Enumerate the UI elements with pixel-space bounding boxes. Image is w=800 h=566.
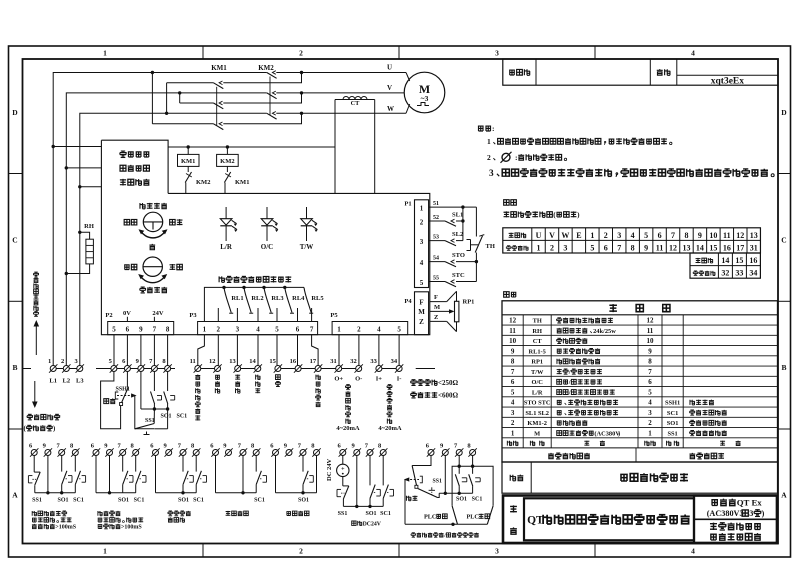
- svg-text:15: 15: [735, 256, 743, 265]
- torque switch STO wire 54: [429, 261, 445, 263]
- svg-text:11: 11: [647, 327, 654, 335]
- terminal 6 option group: [340, 450, 346, 456]
- g6 description external DC24V: [352, 521, 356, 525]
- svg-text:16: 16: [290, 358, 297, 365]
- wire phase row1 L1 to KM2 pole: [53, 73, 267, 366]
- terminal 9 option group: [354, 450, 360, 456]
- svg-text:RL1-5: RL1-5: [528, 348, 545, 355]
- svg-text:5: 5: [590, 243, 594, 252]
- svg-text:4: 4: [691, 49, 695, 58]
- svg-text:6: 6: [296, 326, 300, 334]
- svg-text:RP1: RP1: [463, 299, 475, 306]
- g1 open button SO1: [61, 456, 63, 472]
- svg-text:/: /: [568, 369, 571, 376]
- g2 wire 9: [109, 456, 111, 493]
- svg-text:QT: QT: [527, 515, 544, 527]
- svg-text:13: 13: [682, 243, 690, 252]
- svg-text:SO1: SO1: [178, 498, 189, 504]
- table2 component list grid: [502, 301, 778, 462]
- svg-text:STO STC: STO STC: [524, 400, 551, 407]
- terminal 7 option group: [120, 450, 126, 456]
- svg-text:4~20mA: 4~20mA: [378, 425, 402, 432]
- terminal links 11-12 13-14 15-16-17-31-32 33-34: [198, 368, 218, 370]
- svg-text:I+: I+: [376, 376, 383, 383]
- svg-text:RL2: RL2: [251, 295, 263, 302]
- terminal 3: [77, 366, 83, 372]
- svg-text:M: M: [534, 430, 540, 437]
- terminal 9 option group: [107, 450, 113, 456]
- svg-text:KM2: KM2: [220, 158, 234, 165]
- svg-text:6: 6: [648, 378, 652, 386]
- svg-text:RP1: RP1: [531, 359, 543, 366]
- control knob: [143, 257, 162, 276]
- g7 PLC open valve contact: [452, 506, 457, 525]
- svg-text:34: 34: [391, 358, 398, 365]
- indicator LED L/R: [225, 207, 227, 219]
- svg-text:O-: O-: [355, 376, 362, 383]
- svg-text:O/C: O/C: [261, 243, 273, 251]
- svg-text:L2: L2: [63, 378, 71, 385]
- svg-text:3: 3: [495, 547, 499, 556]
- svg-text:SO1: SO1: [667, 420, 679, 427]
- svg-text:RH: RH: [84, 223, 94, 230]
- svg-text:B: B: [12, 363, 17, 372]
- svg-text:QT Ex: QT Ex: [737, 498, 763, 508]
- svg-text:1: 1: [420, 205, 424, 213]
- svg-text:E: E: [576, 231, 581, 240]
- svg-text:V: V: [387, 84, 392, 92]
- svg-text:1: 1: [590, 231, 594, 240]
- g5 open button SO1: [302, 456, 304, 472]
- svg-text:L/R: L/R: [532, 389, 543, 396]
- relay contact RL2: [242, 286, 245, 289]
- terminal 8 option group: [193, 450, 199, 456]
- svg-text:KM2: KM2: [196, 179, 210, 186]
- terminal 2: [63, 366, 69, 372]
- svg-text:C: C: [12, 236, 17, 245]
- svg-text:8: 8: [648, 358, 652, 366]
- svg-text:9: 9: [648, 347, 652, 355]
- g4 wire 6: [215, 456, 217, 493]
- wire row6 from cross-link row1: [152, 123, 213, 125]
- svg-text:U: U: [387, 63, 392, 71]
- terminal link 1-2-3: [53, 368, 80, 370]
- svg-text:53: 53: [433, 235, 439, 241]
- g4 description close priority: [226, 511, 231, 516]
- svg-text:1: 1: [337, 326, 341, 334]
- svg-text:1: 1: [48, 358, 51, 365]
- svg-text:DC 24V: DC 24V: [326, 458, 333, 481]
- svg-text:P2: P2: [105, 312, 112, 319]
- interlock contact KM1 under KM2 coil: [226, 166, 228, 172]
- svg-text:M: M: [418, 308, 425, 316]
- relay contact RL1: [222, 286, 225, 289]
- svg-text:SS1: SS1: [338, 511, 348, 517]
- g5 bottom wire: [276, 492, 317, 494]
- limit switch SL1 wire 52: [429, 220, 445, 222]
- svg-text:7: 7: [671, 231, 675, 240]
- g2 close button SC1: [135, 456, 137, 472]
- terminal 9 option group: [286, 450, 292, 456]
- svg-text:2: 2: [357, 326, 361, 334]
- terminal 33: [376, 366, 382, 372]
- table2 location row: [548, 453, 554, 459]
- svg-text:SL1: SL1: [452, 212, 463, 219]
- svg-text:11: 11: [723, 231, 731, 240]
- g4 close button SC1: [255, 456, 257, 472]
- relay contact RL5: [304, 287, 311, 312]
- svg-text:1: 1: [103, 49, 107, 58]
- terminal 7 control common: [151, 366, 157, 372]
- table1 caption: [504, 200, 509, 205]
- svg-text:12: 12: [209, 358, 216, 365]
- terminal 14: [255, 366, 261, 372]
- svg-text:1: 1: [203, 326, 207, 334]
- contactor coil KM2: [226, 145, 229, 148]
- svg-text:12: 12: [647, 317, 655, 325]
- svg-text:KM2: KM2: [258, 64, 274, 72]
- svg-text:2: 2: [550, 243, 554, 252]
- table1 continuation grid: [690, 253, 760, 278]
- g6 stop button SS1: [343, 485, 349, 487]
- svg-text:SO1: SO1: [118, 498, 129, 504]
- svg-text:2: 2: [487, 153, 491, 162]
- vertical label input control current: [387, 385, 392, 390]
- g7 PLC close valve contact: [487, 506, 493, 525]
- svg-text:31: 31: [750, 243, 758, 252]
- svg-text:SC1: SC1: [134, 498, 145, 504]
- g5 description open priority: [286, 512, 291, 516]
- svg-text:AC380V: AC380V: [597, 430, 621, 437]
- svg-text:2: 2: [217, 326, 221, 334]
- terminal 12: [215, 366, 221, 372]
- svg-text:17: 17: [736, 243, 744, 252]
- svg-text:52: 52: [433, 215, 439, 221]
- g7 PLC enclosure bracket: [452, 466, 493, 506]
- svg-text:SO1: SO1: [161, 414, 172, 420]
- terminal 17: [315, 366, 321, 372]
- svg-text:STO: STO: [452, 252, 465, 259]
- wire row4 right segment up to node V: [223, 93, 301, 103]
- svg-text:F: F: [419, 298, 423, 306]
- relay contact RL3: [262, 286, 265, 289]
- svg-text:3: 3: [489, 169, 494, 179]
- terminal 5 control common: [111, 366, 117, 372]
- terminal 9 option group: [45, 450, 51, 456]
- terminal 34: [396, 366, 402, 372]
- svg-text:SS1: SS1: [32, 498, 42, 504]
- svg-text:5: 5: [644, 231, 648, 240]
- svg-text:L/R: L/R: [220, 243, 233, 251]
- svg-text:9: 9: [698, 231, 702, 240]
- svg-text:>100mS: >100mS: [121, 525, 142, 531]
- terminal 9 control common: [138, 366, 144, 372]
- svg-text:15: 15: [269, 358, 276, 365]
- svg-text:34: 34: [749, 269, 757, 278]
- svg-text:/: /: [568, 389, 571, 396]
- g5 wire 6: [275, 456, 277, 493]
- svg-text:2: 2: [604, 231, 608, 240]
- svg-text:10: 10: [647, 337, 655, 345]
- svg-text:3: 3: [511, 409, 515, 417]
- svg-text:F: F: [434, 294, 438, 301]
- svg-text:STC: STC: [452, 272, 465, 279]
- torque switch STC wire 55: [429, 281, 445, 283]
- g7 open button SO1: [458, 456, 460, 474]
- svg-text:31: 31: [330, 358, 337, 365]
- svg-text:RL5: RL5: [311, 295, 324, 302]
- label internal wiring of actuator (vertical): [34, 272, 39, 277]
- svg-text:24k/25w: 24k/25w: [593, 328, 616, 335]
- terminal spare stub after 34: [416, 368, 435, 370]
- svg-text:4: 4: [377, 326, 381, 334]
- table2 header: [609, 304, 617, 312]
- g7 wire 9: [444, 456, 446, 494]
- svg-text:32: 32: [350, 358, 357, 365]
- svg-text:24V: 24V: [152, 310, 164, 317]
- table1 terminal map grid: [503, 228, 761, 253]
- terminal 16: [295, 366, 301, 372]
- svg-text:33: 33: [735, 269, 743, 278]
- svg-text:A: A: [12, 491, 18, 500]
- terminal 9 option group: [166, 450, 172, 456]
- close button SC1 on-board: [167, 372, 169, 391]
- g7 selector manual throw wire: [404, 480, 406, 525]
- svg-text:RL3: RL3: [271, 295, 284, 302]
- wire phase tap 3 into board: [80, 186, 102, 188]
- terminal 6 option group: [31, 450, 37, 456]
- svg-text:SC1: SC1: [472, 497, 483, 503]
- svg-text:V: V: [549, 231, 555, 240]
- svg-text:): ): [53, 426, 55, 433]
- svg-text:KM1: KM1: [211, 64, 227, 72]
- terminal link 5-6-9-7-8 with stubs: [96, 368, 175, 370]
- wire row1 right segment to node U: [276, 72, 406, 74]
- g3 bottom wire: [156, 492, 197, 494]
- svg-text:7: 7: [310, 326, 314, 334]
- wire row5 right segment to node W: [276, 112, 406, 114]
- P2 0V marker: [126, 317, 128, 322]
- g6 wire 9: [356, 456, 358, 507]
- svg-text:14: 14: [721, 256, 729, 265]
- remark row: [502, 462, 778, 493]
- frame zone ticks bottom: [202, 544, 204, 558]
- relay output stubs P3: [217, 308, 219, 322]
- svg-text:3: 3: [648, 409, 652, 417]
- svg-text:W: W: [387, 105, 394, 113]
- relay common bus: [204, 287, 304, 321]
- svg-text:9: 9: [511, 347, 515, 355]
- svg-text:15: 15: [709, 243, 717, 252]
- svg-text:7: 7: [153, 326, 157, 334]
- wire row2 linked to row5: [167, 82, 214, 84]
- svg-text:SL2: SL2: [452, 231, 463, 238]
- svg-text:8: 8: [511, 358, 515, 366]
- svg-text:5: 5: [648, 388, 652, 396]
- svg-text:16: 16: [723, 243, 731, 252]
- svg-text:A: A: [781, 491, 787, 500]
- svg-text:SSH1: SSH1: [665, 400, 680, 407]
- svg-text:>100mS: >100mS: [55, 525, 76, 531]
- svg-text:2: 2: [648, 419, 652, 427]
- svg-text:2: 2: [61, 358, 64, 365]
- svg-text:SO1: SO1: [298, 498, 309, 504]
- wires P2 to terminals: [113, 335, 115, 366]
- svg-text:33: 33: [370, 358, 377, 365]
- terminal 8 option group: [133, 450, 139, 456]
- svg-text:1: 1: [487, 137, 491, 146]
- vertical label output valve position current: [346, 385, 351, 390]
- svg-text:DC24V: DC24V: [363, 521, 382, 527]
- g6 bottom wire: [343, 505, 383, 507]
- terminal 6 option group: [273, 450, 279, 456]
- svg-text:11: 11: [190, 358, 196, 365]
- svg-text:55: 55: [433, 276, 439, 282]
- limit switch SL2 wire 53: [429, 240, 445, 242]
- svg-text:SC1: SC1: [380, 511, 391, 517]
- title drawing name box: [524, 498, 694, 540]
- g2 bottom wire: [96, 492, 136, 494]
- CT winding arcs: [343, 97, 349, 100]
- applicability text: [711, 500, 718, 506]
- wire terminal 5 loop: [101, 372, 121, 429]
- svg-text:SO1: SO1: [456, 497, 467, 503]
- svg-text:P1: P1: [404, 201, 411, 208]
- arrow up: [35, 324, 37, 355]
- svg-text:13: 13: [229, 358, 236, 365]
- svg-text:2: 2: [511, 419, 515, 427]
- g2 wire 6: [95, 456, 97, 493]
- terminal 7 option group: [456, 450, 462, 456]
- svg-text:P3: P3: [189, 312, 197, 319]
- g7 close button SC1: [472, 456, 474, 474]
- wire TH chain: [475, 207, 477, 236]
- svg-text:7: 7: [617, 243, 621, 252]
- relay contact RL4: [283, 286, 286, 289]
- svg-text:SS1: SS1: [667, 430, 677, 437]
- remark text explosion-proof integral regulating type: [620, 474, 628, 481]
- svg-text:5: 5: [511, 388, 515, 396]
- vertical label monitor relay: [316, 375, 321, 380]
- svg-text:SC1: SC1: [177, 414, 188, 420]
- svg-text:P4: P4: [404, 298, 412, 305]
- svg-text:L3: L3: [76, 378, 84, 385]
- terminal 15: [275, 366, 281, 372]
- svg-text:T/W: T/W: [300, 243, 314, 251]
- g1 bottom wire: [35, 492, 76, 494]
- svg-text:4: 4: [256, 326, 260, 334]
- svg-text:RL4: RL4: [292, 295, 305, 302]
- header box contract number: [503, 59, 778, 85]
- svg-text:13: 13: [750, 231, 758, 240]
- frame zone ticks top: [202, 46, 204, 59]
- terminal 8 option group: [470, 450, 476, 456]
- terminal 1: [50, 366, 56, 372]
- svg-text:12: 12: [509, 317, 517, 325]
- terminal 8 option group: [380, 450, 386, 456]
- svg-text:<600Ω: <600Ω: [438, 392, 458, 400]
- svg-text:M: M: [434, 304, 440, 311]
- svg-text:/: /: [443, 533, 446, 539]
- title block outer thick box: [503, 496, 777, 544]
- wire row6 right segment up to node W: [223, 113, 301, 124]
- svg-text:1: 1: [537, 243, 541, 252]
- wire phase row3 L2 to KM2 pole: [66, 93, 266, 366]
- svg-text:16: 16: [749, 256, 757, 265]
- wire SL bus: [462, 207, 464, 241]
- wires P3 to terminals: [198, 335, 205, 366]
- svg-text:D: D: [12, 108, 18, 117]
- terminal 8 option group: [314, 450, 320, 456]
- svg-text:4: 4: [511, 399, 515, 407]
- common bus from terminal 9: [140, 372, 142, 409]
- applicability box: [694, 496, 777, 544]
- g7 selector switch: [412, 456, 431, 466]
- svg-text:3: 3: [617, 231, 621, 240]
- svg-text:KM1-2: KM1-2: [527, 420, 547, 427]
- svg-text:TH: TH: [533, 318, 542, 325]
- feedback potentiometer RP1: [430, 301, 447, 303]
- contactor coil KM1: [187, 145, 190, 148]
- frame zone ticks left: [9, 173, 23, 175]
- power conversion unit box text: [120, 151, 126, 157]
- svg-text:SC1: SC1: [193, 498, 204, 504]
- svg-text:6: 6: [511, 378, 515, 386]
- svg-text:CT: CT: [351, 100, 361, 107]
- table2 column titles row: [507, 441, 512, 446]
- wire row2 right segment up to node U: [223, 73, 301, 83]
- vertical label open limit: [215, 375, 220, 379]
- vertical label remote: [276, 375, 281, 380]
- wire selector remote throw down: [135, 396, 154, 429]
- g1 common 9: [47, 456, 49, 493]
- svg-text:PLC: PLC: [424, 514, 436, 521]
- terminal 6 option group: [153, 450, 159, 456]
- terminal 7 option group: [300, 450, 306, 456]
- svg-text:6: 6: [658, 231, 662, 240]
- svg-text:): ): [618, 430, 620, 437]
- terminal 7 option group: [180, 450, 186, 456]
- svg-text:5: 5: [275, 326, 279, 334]
- svg-text:8: 8: [684, 231, 688, 240]
- g7 common wire: [439, 492, 472, 494]
- contactor KM1 linkage: [216, 87, 218, 126]
- g4 bottom wire: [216, 492, 257, 494]
- g3 close button SC1: [195, 456, 197, 472]
- svg-text:2: 2: [420, 219, 424, 227]
- svg-text:T/W: T/W: [531, 369, 544, 376]
- svg-text:9: 9: [644, 243, 648, 252]
- g3 open button SO1: [182, 456, 184, 472]
- g2 description: [98, 511, 103, 516]
- terminal 11: [195, 366, 201, 372]
- svg-text:PLC: PLC: [467, 514, 479, 521]
- svg-text:SO1: SO1: [57, 498, 68, 504]
- svg-text:O+: O+: [334, 376, 343, 383]
- indicator LED T/W: [306, 207, 308, 219]
- svg-text:14: 14: [696, 243, 704, 252]
- arrow down: [34, 381, 36, 404]
- svg-text:SC1: SC1: [73, 498, 84, 504]
- table1 subcaption: [504, 211, 510, 217]
- note input impedance: [411, 380, 417, 386]
- svg-text:6: 6: [126, 326, 130, 334]
- wire phase row5 L3 to KM2 pole: [80, 113, 267, 365]
- terminal 8 control common: [165, 366, 171, 372]
- terminal 32: [356, 366, 362, 372]
- thermal protector TH: [475, 236, 482, 253]
- g6 close button SC1: [382, 456, 384, 486]
